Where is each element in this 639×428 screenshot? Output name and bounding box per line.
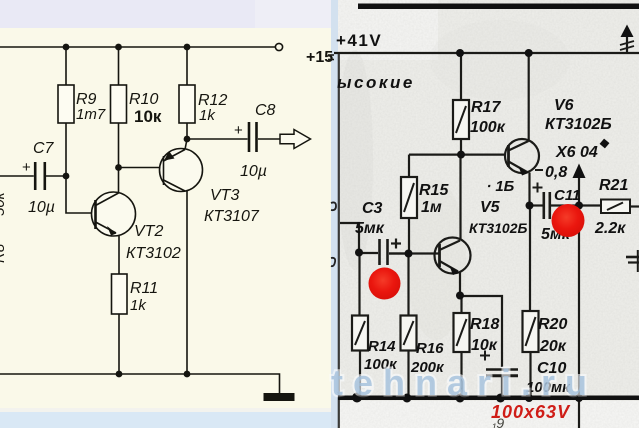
- svg-text:V6: V6: [554, 97, 574, 114]
- svg-text:R14: R14: [368, 338, 396, 355]
- wire to C3: [359, 252, 378, 254]
- wire C7 input: [0, 175, 34, 177]
- svg-text:₁9: ₁9: [491, 415, 504, 428]
- left schematic background: [0, 0, 332, 428]
- continuation marks left strip: [328, 54, 334, 56]
- svg-text:20к: 20к: [539, 338, 567, 355]
- capacitor C10: [486, 368, 518, 370]
- svg-text:1м: 1м: [421, 199, 442, 216]
- mark diamond X6: [600, 139, 610, 149]
- wire R10 top: [118, 47, 120, 85]
- wire input elbow: [340, 223, 359, 253]
- svg-text:+15: +15: [306, 49, 333, 66]
- node C3 / R14: [355, 249, 363, 257]
- svg-text:10к: 10к: [134, 107, 162, 126]
- svg-text:R16: R16: [416, 340, 444, 357]
- svg-text:100к: 100к: [470, 119, 506, 136]
- node V5 emitter: [456, 292, 464, 300]
- svg-text:С11: С11: [554, 187, 580, 204]
- resistor R20: [523, 311, 539, 352]
- wire R15 top elbow: [408, 155, 410, 177]
- node rail X6: [575, 394, 583, 402]
- svg-text:Х6 04: Х6 04: [555, 144, 598, 161]
- resistor R11: [112, 274, 128, 314]
- watermark tehnari.ru: [331, 362, 597, 403]
- dash before 0,8: [535, 169, 543, 171]
- svg-text:VT3: VT3: [210, 187, 239, 204]
- svg-text:С3: С3: [362, 200, 383, 217]
- wire R17 top: [460, 53, 462, 100]
- ground: [264, 393, 295, 401]
- wire V6 base rail: [409, 154, 505, 156]
- resistor R18: [454, 313, 470, 352]
- wire C7 to node: [46, 175, 66, 177]
- wire R15 bottom: [408, 218, 410, 254]
- svg-text:50к: 50к: [0, 191, 8, 216]
- plus C11: [533, 187, 543, 189]
- edge glyph fragment lower: [331, 258, 335, 266]
- node R10/VT3 base: [115, 164, 122, 171]
- transistor V6: [505, 139, 539, 173]
- capacitor C8: [248, 122, 251, 152]
- wire left border vertical: [338, 54, 340, 428]
- wire C8 to arrow: [258, 138, 280, 140]
- resistor R10: [111, 85, 127, 123]
- resistor R9: [58, 85, 74, 123]
- node rail R17: [456, 49, 464, 57]
- wire V6 collector: [528, 53, 530, 142]
- svg-text:R10: R10: [129, 91, 158, 108]
- svg-text:R15: R15: [419, 182, 449, 199]
- wire VT2 base rail to VT3: [119, 167, 162, 169]
- transistor VT3: [160, 149, 203, 192]
- node rail R20: [525, 394, 533, 402]
- transistor V5: [435, 238, 471, 274]
- bottom thick rail: [338, 396, 639, 401]
- svg-text:5мк: 5мк: [355, 220, 385, 237]
- node base / R15 / R16: [405, 250, 413, 258]
- svg-text:10µ: 10µ: [240, 163, 267, 180]
- node rail R18: [456, 394, 465, 403]
- wire R17 bottom: [460, 139, 462, 155]
- svg-text:R18: R18: [470, 316, 499, 333]
- plus C3: [391, 242, 401, 244]
- top thick bus bar: [358, 4, 639, 10]
- node rail R14: [352, 393, 362, 403]
- svg-text:10µ: 10µ: [28, 199, 55, 216]
- red marker dot 1: [369, 268, 401, 300]
- transistor VT2: [92, 192, 136, 236]
- wire emitter node right: [460, 296, 502, 367]
- node rail V6: [525, 49, 533, 57]
- wire VT3 emitter to node: [185, 139, 187, 150]
- arrow up right: [626, 35, 628, 53]
- svg-text:R20: R20: [538, 316, 567, 333]
- node R12/C8: [184, 136, 191, 143]
- node C11 / X6: [575, 202, 583, 210]
- wire R18 bottom: [460, 352, 462, 396]
- wire node to VT2 base: [66, 176, 94, 213]
- wire bottom rail: [0, 374, 280, 394]
- node rail R11: [116, 371, 123, 378]
- node rail VT3: [184, 371, 191, 378]
- bottom white strip: [0, 408, 332, 412]
- svg-text:R8: R8: [0, 243, 8, 263]
- node rail C10: [496, 394, 505, 403]
- wire R11 to ground rail: [118, 314, 120, 374]
- wire R14 bottom: [359, 351, 361, 397]
- wire R9 bottom: [65, 123, 67, 176]
- wire V5 emitter down: [459, 272, 461, 296]
- photo background: [338, 0, 639, 428]
- wire VT3 collector down: [186, 191, 188, 374]
- wire VT2 collector: [118, 168, 120, 194]
- svg-text:C7: C7: [33, 140, 55, 157]
- capacitor C7: [34, 162, 37, 190]
- node rail R16: [403, 394, 412, 403]
- continuation marks right: [626, 256, 639, 259]
- resistor R14: [352, 316, 368, 351]
- wire R16 top: [407, 254, 409, 316]
- resistor R21: [601, 200, 630, 214]
- wire C11 to R21: [551, 204, 601, 206]
- svg-text:C8: C8: [255, 102, 276, 119]
- node V6 emitter / C11: [526, 202, 534, 210]
- node C7/R9: [63, 173, 70, 180]
- wire right edge stub: [637, 250, 639, 272]
- svg-text:1k: 1k: [199, 107, 216, 124]
- svg-text:10к: 10к: [471, 337, 498, 354]
- node top R9: [63, 44, 70, 51]
- bottom blue band: [0, 412, 332, 428]
- svg-text:∙ 1Б: ∙ 1Б: [487, 178, 515, 195]
- svg-text:КТ3102Б: КТ3102Б: [469, 220, 527, 236]
- arrow up X6: [578, 176, 580, 206]
- node top R10: [115, 44, 122, 51]
- capacitor C11: [542, 192, 545, 219]
- svg-text:R21: R21: [599, 177, 628, 194]
- resistor R16: [401, 316, 417, 351]
- capacitor C3: [378, 239, 381, 265]
- wire R10 bottom: [118, 123, 120, 168]
- wire V6 emitter down: [528, 173, 530, 206]
- wire C10 bottom: [501, 377, 503, 396]
- svg-text:R11: R11: [130, 280, 158, 297]
- svg-text:ысокие: ысокие: [337, 73, 415, 92]
- wire top rail +15: [0, 46, 275, 48]
- svg-text:2.2к: 2.2к: [594, 220, 626, 237]
- wire VT2 emitter down: [118, 236, 120, 274]
- resistor R12: [179, 85, 195, 123]
- red marker dot 2: [552, 204, 585, 237]
- wire emitter to C11: [530, 204, 543, 206]
- wire C3 to base node: [389, 252, 409, 254]
- wire X6 vertical down: [578, 206, 580, 397]
- output arrow: [280, 130, 311, 149]
- svg-text:1k: 1k: [130, 297, 147, 314]
- wire R16 bottom: [407, 351, 409, 397]
- terminal +15: [275, 43, 282, 50]
- plus C10: [480, 355, 490, 357]
- separator strip: [331, 0, 339, 428]
- svg-text:0,8: 0,8: [545, 164, 567, 181]
- wire V5 collector vertical: [459, 155, 461, 240]
- edge glyph fragment upper: [331, 202, 336, 210]
- wire R9 top: [65, 47, 67, 85]
- node top R12: [184, 44, 191, 51]
- resistor R15: [401, 177, 417, 218]
- wire node to C8: [187, 138, 248, 140]
- wire R20 top: [529, 206, 531, 312]
- svg-text:+: +: [234, 122, 243, 139]
- wire X6 below rail: [578, 399, 580, 428]
- wire R21 right: [630, 205, 639, 207]
- resistor R17: [453, 100, 469, 139]
- svg-text:1m7: 1m7: [76, 106, 106, 123]
- wire R12 bottom: [186, 123, 188, 139]
- wire +41V rail: [334, 52, 639, 54]
- svg-text:КТ3102: КТ3102: [126, 245, 181, 262]
- wire V5 base: [389, 252, 440, 254]
- svg-text:+: +: [22, 159, 31, 176]
- node R17/V6 base: [457, 151, 465, 159]
- wire R12 top: [186, 47, 188, 85]
- svg-text:+41V: +41V: [336, 31, 382, 50]
- top lavender band: [0, 0, 332, 28]
- svg-text:VT2: VT2: [134, 223, 163, 240]
- svg-text:КТ3107: КТ3107: [204, 208, 260, 225]
- wire R20 bottom: [529, 352, 531, 396]
- svg-text:V5: V5: [480, 199, 501, 216]
- wire bottom rail over watermark: [338, 396, 639, 401]
- wire R18 top: [460, 296, 462, 313]
- svg-text:КТ3102Б: КТ3102Б: [545, 116, 612, 133]
- wire R14 top: [358, 253, 360, 316]
- svg-text:R17: R17: [471, 99, 501, 116]
